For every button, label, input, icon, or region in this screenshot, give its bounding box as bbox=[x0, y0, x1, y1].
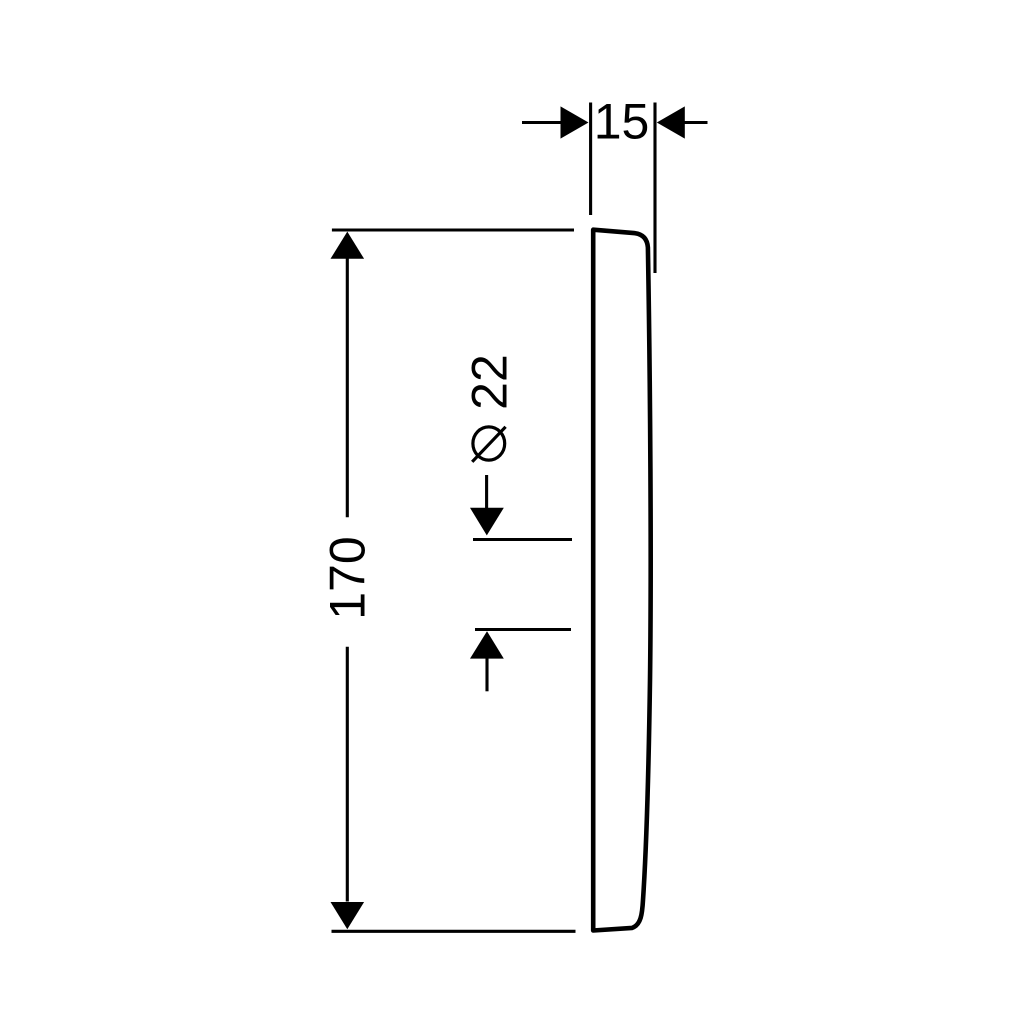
svg-text:15: 15 bbox=[594, 94, 650, 150]
dim diameter 22: upper tick line bbox=[473, 538, 572, 541]
dim 15: right extension line bbox=[653, 103, 656, 274]
svg-text:170: 170 bbox=[320, 536, 376, 619]
dim 170: bottom arrowhead bbox=[331, 902, 365, 929]
dim diameter 22: up arrowhead bbox=[470, 631, 504, 658]
dim 15: right leader line bbox=[685, 121, 708, 124]
dim 15: left leader line bbox=[522, 121, 561, 124]
dim 15: left arrowhead bbox=[561, 106, 589, 138]
dim diameter 22: diameter symbol slash bbox=[472, 427, 505, 462]
dim 170: lower shaft bbox=[346, 647, 349, 902]
dim 170: top arrowhead bbox=[331, 232, 365, 259]
dim 170: upper shaft bbox=[346, 258, 349, 518]
dim diameter 22: down arrowhead bbox=[470, 508, 504, 536]
dim 15: left extension line bbox=[589, 103, 592, 216]
dim 170: bottom extension line bbox=[332, 930, 576, 933]
dim 170: top extension line bbox=[332, 228, 574, 231]
dim diameter 22: upper arrow shaft bbox=[485, 475, 488, 509]
dim diameter 22: diameter symbol circle bbox=[473, 427, 505, 460]
plate profile outline bbox=[593, 230, 650, 931]
dim 15: right arrowhead bbox=[657, 106, 685, 138]
dim diameter 22: lower arrow shaft bbox=[485, 658, 488, 692]
svg-text:22: 22 bbox=[462, 354, 518, 410]
dim diameter 22: lower tick line bbox=[475, 628, 571, 631]
